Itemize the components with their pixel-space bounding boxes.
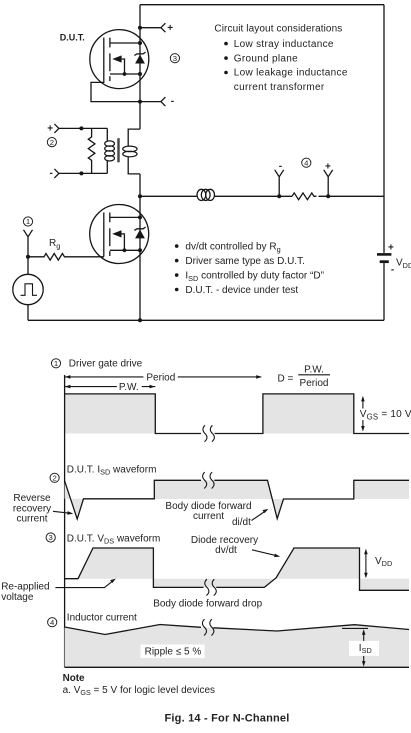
body diode of upper D.U.T. (134, 52, 145, 63)
node: gate drive input terminal (1) (24, 230, 33, 257)
transformer T1 primary winding (105, 128, 115, 173)
resistor current sense (292, 193, 317, 200)
svg-text:Circuit layout considerations: Circuit layout considerations (214, 24, 342, 35)
label circled 2 (47, 138, 56, 147)
svg-text:Period: Period (146, 372, 175, 383)
svg-text:Driver gate drive: Driver gate drive (69, 359, 143, 370)
wire: bottom return rail (28, 319, 384, 321)
waveform 2 trace: ISD current (65, 480, 409, 519)
break symbol on waveform 4 (202, 619, 213, 635)
svg-text:4: 4 (50, 618, 55, 627)
svg-text:-: - (279, 161, 282, 172)
transformer T1 core (117, 138, 119, 162)
inductor L1 (197, 189, 215, 200)
wire: right rail lower (battery - to bottom) (383, 263, 385, 320)
svg-text:current: current (193, 511, 224, 522)
label Re-applied voltage with arrow (1, 579, 116, 603)
probe terminal - (node 4) (275, 170, 284, 197)
junction: + probe tap (4) (326, 194, 330, 198)
body diode of driver MOSFET (134, 227, 145, 238)
label circled 1 (23, 217, 32, 226)
battery VDD long plate (377, 253, 391, 256)
waveform 1 fill: pulse 1 (65, 394, 156, 434)
svg-text:4: 4 (304, 158, 309, 167)
node: input terminal - (2) (54, 169, 107, 178)
svg-text:VDD: VDD (375, 556, 392, 568)
label circled 3 (170, 54, 179, 63)
wire: upper D.U.T. gate tied to source node (91, 81, 140, 102)
wire: load branch segments (140, 195, 384, 197)
svg-text:VDD: VDD (396, 257, 411, 270)
svg-text:dv/dt: dv/dt (215, 545, 237, 556)
waveform 1 fill: pulse 2 (263, 394, 354, 434)
junction: + input / damping resistor (79, 126, 83, 130)
mosfet Q1 driver (lower) (90, 205, 149, 264)
junction: - probe tap (4) (277, 194, 281, 198)
node: + sense tap of D.U.T. (3) (138, 26, 142, 30)
probe terminal + (node 4) (324, 170, 333, 197)
label Reverse recovery current (13, 493, 73, 524)
svg-text:Body diode forward drop: Body diode forward drop (153, 598, 262, 609)
svg-text:P.W.: P.W. (304, 364, 324, 375)
break symbol on waveform 2 (203, 472, 214, 488)
dimension arrow: VGS = 10 V (360, 396, 411, 432)
junction: - input / damping resistor (79, 171, 83, 175)
svg-text:ISD controlled by duty factor: ISD controlled by duty factor “D” (185, 270, 324, 282)
label circled 4 (waveform) (48, 618, 57, 627)
dimension arrow: ISD level (349, 629, 379, 666)
svg-text:dv/dt controlled by Rg: dv/dt controlled by Rg (185, 241, 280, 253)
svg-text:Low stray inductance: Low stray inductance (234, 39, 334, 50)
svg-text:+: + (167, 23, 173, 34)
label Diode recovery dv/dt with arrow (191, 535, 280, 557)
mosfet D.U.T. upper (diode-connected) (90, 30, 149, 89)
label Ripple <= 5 % (141, 645, 205, 659)
svg-text:di/dt: di/dt (232, 517, 251, 528)
battery VDD short plate (380, 260, 389, 263)
label circled 4 (302, 158, 311, 167)
waveform 2 fill: reverse recovery spike (65, 481, 84, 519)
svg-text:3: 3 (49, 533, 53, 542)
wire: top rail from D.U.T. drain to right rail (140, 4, 384, 6)
svg-text:Rg: Rg (49, 238, 60, 250)
svg-text:Period: Period (300, 378, 329, 389)
svg-text:D.U.T. - device under test: D.U.T. - device under test (185, 285, 298, 296)
resistor Rg (28, 253, 104, 260)
label circled 2 (waveform) (50, 473, 59, 482)
svg-text:-: - (50, 168, 53, 179)
junction: gate drive node (26, 255, 30, 259)
waveform 3 fill: right body diode drop band (360, 579, 410, 591)
dimension arrow: VDD (364, 549, 392, 578)
wire: main left rail lower (transformer jog to bottom) (139, 174, 141, 320)
svg-text:2: 2 (52, 474, 56, 483)
dimension arrow: Period (65, 372, 262, 383)
axis: waveform time axis (64, 375, 66, 667)
dimension arrow: P.W. (65, 382, 156, 393)
svg-text:Low leakage inductance: Low leakage inductance (234, 68, 348, 79)
waveform 3 fill: re-applied voltage 2 (275, 548, 359, 579)
svg-text:D =: D = (278, 373, 294, 384)
transformer T1 secondary winding (123, 129, 140, 174)
node: - sense tap of D.U.T. (3) (138, 100, 142, 104)
waveform 4 fill: inductor current area (65, 625, 409, 668)
svg-text:current transformer: current transformer (234, 82, 325, 93)
waveform 4 trace: inductor ripple current (65, 625, 409, 635)
label circled 3 (waveform) (46, 533, 55, 542)
note: circuit layout considerations (214, 24, 347, 94)
svg-text:a. VGS = 5 V for logic level d: a. VGS = 5 V for logic level devices (63, 685, 215, 697)
svg-text:-: - (391, 264, 394, 275)
waveform 3 fill: re-applied voltage 1 (78, 548, 153, 579)
note: test condition bullets (175, 241, 324, 295)
wire: right rail upper (to battery +) (383, 5, 385, 253)
svg-text:Note: Note (63, 673, 85, 684)
label circled 1 (waveform) (51, 359, 60, 368)
tick: average level under ripple peak (342, 627, 368, 629)
junction: bottom rail (138, 318, 142, 322)
wire: main left rail upper (top to transformer jog) (139, 5, 141, 129)
axis: zero current base line (65, 666, 409, 668)
svg-text:D.U.T.: D.U.T. (60, 32, 85, 42)
svg-text:P.W.: P.W. (119, 382, 139, 393)
junction: lower rail to load wire (138, 194, 142, 198)
svg-text:3: 3 (173, 54, 177, 63)
svg-text:2: 2 (50, 138, 54, 147)
svg-text:Ground plane: Ground plane (234, 53, 298, 64)
break symbol on waveform 1 (203, 425, 214, 441)
waveform 2 fill: body diode conduction 2 (354, 480, 409, 499)
svg-text:Driver same type as D.U.T.: Driver same type as D.U.T. (185, 256, 304, 267)
svg-text:Fig. 14 - For N-Channel: Fig. 14 - For N-Channel (165, 712, 290, 724)
label di/dt with arrow (232, 509, 269, 528)
svg-text:+: + (47, 124, 53, 135)
waveform 1 trace: gate drive pulses (65, 394, 409, 434)
svg-text:VGS = 10 V: VGS = 10 V (360, 409, 411, 422)
waveform 3 trace: VDS voltage (65, 548, 409, 590)
svg-text:current: current (16, 514, 47, 525)
label Body diode forward current (165, 501, 251, 522)
svg-text:+: + (325, 161, 331, 172)
break symbol on waveform 3 (205, 579, 216, 595)
label duty cycle formula D = P.W./Period (278, 364, 331, 388)
svg-text:1: 1 (26, 217, 30, 226)
pulse generator source (13, 257, 43, 321)
svg-text:Inductor current: Inductor current (67, 613, 137, 624)
svg-text:D.U.T. ISD waveform: D.U.T. ISD waveform (67, 464, 157, 476)
waveform 2 fill: body diode conduction 1 (154, 480, 283, 518)
svg-text:1: 1 (54, 359, 58, 368)
node: input terminal + (2) (54, 124, 107, 133)
svg-text:-: - (171, 96, 174, 107)
svg-text:D.U.T. VDS waveform: D.U.T. VDS waveform (67, 533, 161, 545)
svg-text:Ripple ≤ 5 %: Ripple ≤ 5 % (145, 647, 202, 658)
svg-text:+: + (388, 243, 394, 254)
resistor across transformer primary (88, 128, 95, 173)
svg-text:voltage: voltage (1, 592, 34, 603)
waveform 3 fill: body diode drop band (153, 579, 275, 588)
